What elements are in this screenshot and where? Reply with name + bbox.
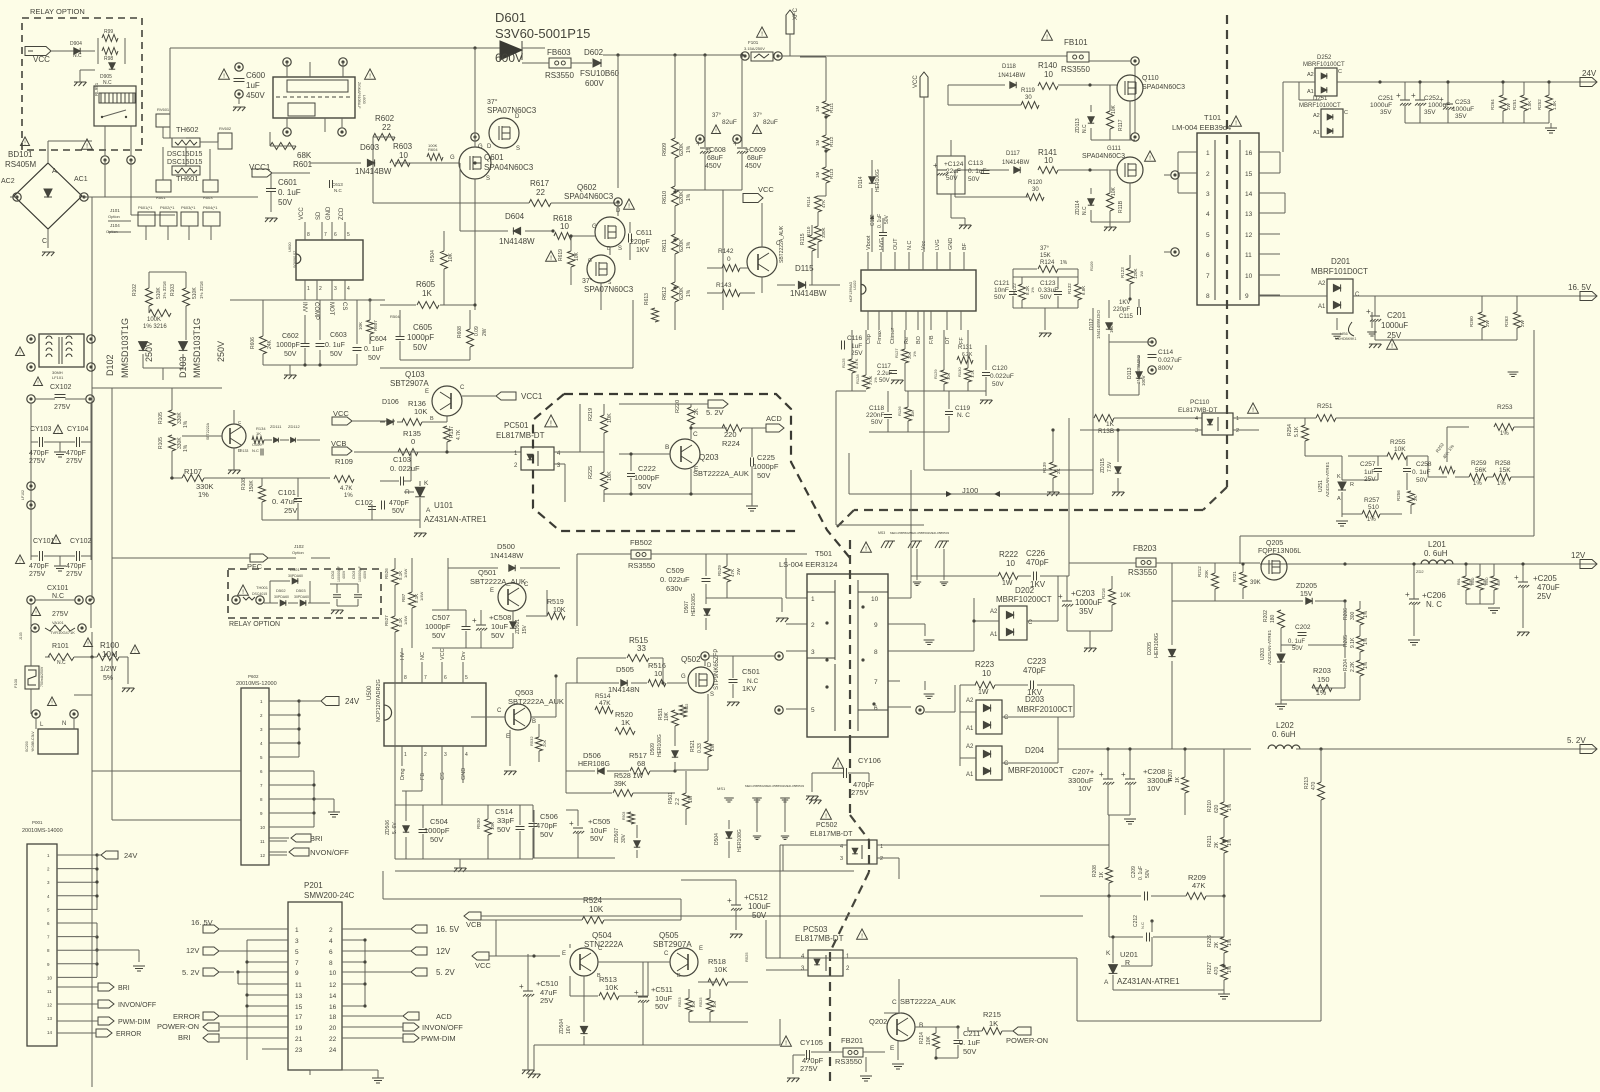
svg-text:R606: R606	[250, 337, 256, 349]
svg-text:G: G	[592, 224, 597, 230]
svg-text:C101: C101	[278, 488, 296, 497]
svg-text:POWER-ON: POWER-ON	[157, 1022, 199, 1031]
svg-text:470pF: 470pF	[536, 821, 558, 830]
svg-text:400V: 400V	[363, 570, 367, 579]
svg-text:R129: R129	[933, 369, 938, 379]
svg-text:VCB: VCB	[466, 920, 481, 929]
svg-text:GND: GND	[326, 206, 332, 220]
svg-text:R112: R112	[829, 136, 834, 147]
svg-text:6.8K: 6.8K	[1081, 286, 1086, 295]
svg-text:U203: U203	[1260, 648, 1266, 660]
svg-text:R611: R611	[662, 239, 668, 252]
svg-text:R100: R100	[100, 641, 120, 650]
svg-text:L201: L201	[1428, 540, 1446, 549]
svg-text:R102: R102	[132, 284, 138, 296]
svg-text:620K: 620K	[679, 191, 685, 204]
svg-text:R99: R99	[104, 29, 113, 35]
svg-text:100K: 100K	[428, 143, 438, 148]
svg-text:0. 6uH: 0. 6uH	[1424, 549, 1448, 558]
svg-text:50V: 50V	[879, 378, 890, 384]
svg-text:750mA/250V: 750mA/250V	[40, 666, 44, 687]
svg-text:ACD: ACD	[436, 1012, 452, 1021]
svg-text:R603: R603	[393, 142, 413, 151]
svg-text:1.2K: 1.2K	[970, 369, 975, 378]
svg-text:SBT2222A_AUK: SBT2222A_AUK	[900, 997, 956, 1006]
svg-text:2: 2	[1236, 428, 1239, 434]
svg-text:LF102: LF102	[21, 490, 25, 500]
svg-text:4: 4	[1195, 416, 1198, 422]
svg-text:6: 6	[329, 949, 333, 956]
svg-text:PWM-DIM: PWM-DIM	[118, 1019, 150, 1026]
svg-text:470pF: 470pF	[66, 563, 86, 570]
svg-text:A2: A2	[966, 698, 974, 704]
svg-text:6: 6	[1206, 252, 1210, 259]
svg-text:P001: P001	[32, 820, 43, 825]
svg-text:MS3: MS3	[878, 531, 885, 535]
svg-text:C: C	[598, 946, 603, 952]
svg-text:16V: 16V	[566, 1024, 572, 1034]
svg-text:D501: D501	[290, 567, 300, 572]
svg-text:800V: 800V	[1158, 365, 1174, 372]
svg-text:10: 10	[1006, 559, 1015, 568]
svg-text:T501: T501	[815, 549, 832, 558]
svg-text:C226: C226	[1026, 549, 1046, 558]
svg-text:D117: D117	[1006, 151, 1021, 157]
svg-text:TH001: TH001	[256, 585, 269, 590]
svg-text:3: 3	[1206, 191, 1210, 198]
svg-text:1%: 1%	[1363, 610, 1369, 618]
svg-text:C604: C604	[370, 336, 387, 343]
svg-text:2W: 2W	[1485, 319, 1490, 327]
svg-text:C113: C113	[968, 160, 983, 167]
svg-text:+: +	[569, 819, 574, 828]
svg-text:10: 10	[1044, 70, 1053, 79]
svg-text:C253: C253	[1455, 99, 1471, 106]
svg-text:1%: 1%	[686, 145, 692, 153]
svg-text:C112: C112	[870, 214, 876, 226]
svg-text:6: 6	[874, 705, 878, 712]
svg-text:C602: C602	[282, 333, 299, 340]
svg-text:1%: 1%	[1030, 287, 1035, 293]
svg-text:14: 14	[47, 1030, 53, 1035]
svg-text:35V: 35V	[1424, 109, 1436, 116]
svg-text:R103: R103	[170, 284, 176, 296]
svg-text:A: A	[1337, 496, 1341, 502]
svg-text:R254: R254	[1287, 424, 1293, 436]
svg-text:0.47K: 0.47K	[854, 358, 859, 369]
svg-text:12: 12	[329, 982, 337, 989]
svg-text:10K: 10K	[712, 1001, 717, 1008]
svg-text:RS405M: RS405M	[5, 160, 36, 169]
svg-text:RS3550: RS3550	[835, 1057, 862, 1066]
svg-text:50V: 50V	[284, 351, 297, 358]
svg-text:FF: FF	[959, 337, 965, 344]
svg-text:10: 10	[260, 825, 266, 830]
svg-text:+: +	[696, 139, 701, 148]
svg-text:VCC: VCC	[33, 55, 50, 64]
svg-text:ZD205: ZD205	[1296, 583, 1317, 590]
svg-text:C123: C123	[1040, 280, 1056, 287]
svg-text:A1: A1	[966, 726, 974, 732]
svg-text:+: +	[1439, 95, 1444, 104]
svg-text:B: B	[919, 1022, 923, 1029]
svg-text:C501: C501	[742, 667, 760, 676]
svg-text:600V: 600V	[495, 51, 523, 65]
svg-text:1N4148N: 1N4148N	[608, 685, 640, 694]
svg-text:9: 9	[874, 622, 878, 629]
svg-text:BO: BO	[916, 335, 922, 344]
svg-text:50V: 50V	[752, 911, 767, 920]
svg-text:1N414BW: 1N414BW	[998, 73, 1026, 79]
svg-text:1%: 1%	[686, 241, 692, 249]
svg-text:3: 3	[811, 649, 815, 656]
svg-text:C102: C102	[355, 498, 373, 507]
svg-text:30PDA60: 30PDA60	[288, 574, 303, 578]
svg-text:+C510: +C510	[536, 979, 558, 988]
svg-text:F101: F101	[748, 40, 759, 45]
svg-text:PC503: PC503	[803, 925, 828, 934]
svg-text:R504: R504	[430, 250, 436, 262]
svg-text:220pF: 220pF	[1113, 307, 1130, 313]
svg-text:50V: 50V	[278, 198, 293, 207]
svg-text:G: G	[450, 155, 455, 161]
svg-text:AC2: AC2	[1, 178, 15, 185]
svg-text:14: 14	[1245, 191, 1253, 198]
svg-text:47K: 47K	[821, 200, 826, 208]
svg-text:1M: 1M	[815, 171, 820, 178]
svg-text:Q505: Q505	[659, 931, 679, 940]
svg-text:C601: C601	[278, 178, 298, 187]
svg-text:30V: 30V	[621, 833, 627, 843]
svg-text:R131: R131	[958, 345, 973, 351]
svg-text:1K: 1K	[422, 289, 432, 298]
svg-text:20010MS-12000: 20010MS-12000	[236, 681, 277, 687]
svg-text:!: !	[1235, 120, 1237, 127]
svg-text:CY104: CY104	[67, 426, 89, 433]
svg-text:Q203: Q203	[699, 453, 719, 462]
svg-text:BF: BF	[962, 242, 968, 250]
svg-text:1%: 1%	[1500, 431, 1509, 437]
svg-text:275V: 275V	[800, 1064, 818, 1073]
svg-text:STP9NK65ZFP: STP9NK65ZFP	[714, 649, 720, 690]
svg-text:470uF: 470uF	[1537, 583, 1560, 592]
svg-text:100V: 100V	[1141, 375, 1146, 386]
svg-text:S3V60-5001P15: S3V60-5001P15	[495, 26, 590, 41]
svg-text:5. 2V: 5. 2V	[436, 968, 455, 977]
svg-text:10uF: 10uF	[491, 622, 509, 631]
svg-text:AZ431AN-ATRE1: AZ431AN-ATRE1	[1325, 461, 1330, 497]
svg-text:SPA07N60C3: SPA07N60C3	[487, 106, 537, 115]
svg-text:R113: R113	[829, 168, 834, 179]
svg-text:R253: R253	[1497, 404, 1513, 411]
svg-text:R259: R259	[1471, 460, 1487, 467]
svg-text:35V: 35V	[1079, 607, 1094, 616]
svg-text:19: 19	[295, 1025, 303, 1032]
svg-text:NCP1396AG: NCP1396AG	[849, 281, 853, 302]
svg-text:P601(*1: P601(*1	[138, 205, 153, 210]
svg-text:VCB: VCB	[331, 439, 346, 448]
svg-text:RV601: RV601	[157, 107, 170, 112]
svg-text:R619: R619	[558, 249, 564, 261]
svg-text:275V: 275V	[52, 611, 69, 618]
svg-text:SPA04N60C3: SPA04N60C3	[1082, 153, 1125, 160]
svg-text:D112: D112	[1089, 318, 1095, 330]
svg-text:2: 2	[319, 286, 322, 292]
svg-text:24V: 24V	[1582, 69, 1597, 78]
svg-text:R109: R109	[1089, 261, 1094, 271]
svg-text:MBRF20100CT: MBRF20100CT	[1017, 705, 1073, 714]
svg-text:B: B	[532, 719, 536, 725]
svg-text:R226: R226	[1207, 935, 1213, 947]
svg-text:CY103: CY103	[30, 426, 52, 433]
svg-text:1%: 1%	[183, 444, 189, 452]
svg-text:D603: D603	[360, 143, 380, 152]
svg-text:R612: R612	[662, 287, 668, 300]
svg-text:VCC: VCC	[440, 648, 446, 660]
svg-text:N: N	[62, 721, 66, 727]
svg-text:50V: 50V	[590, 834, 603, 843]
svg-text:1000uF: 1000uF	[1075, 598, 1102, 607]
svg-text:R202: R202	[1263, 610, 1269, 622]
svg-text:POWER-ON: POWER-ON	[1006, 1036, 1048, 1045]
svg-text:12: 12	[1245, 232, 1253, 239]
svg-text:R119: R119	[1021, 88, 1036, 94]
svg-text:C117: C117	[877, 364, 892, 370]
svg-text:24K: 24K	[267, 339, 273, 349]
svg-text:1W: 1W	[978, 689, 989, 696]
svg-text:Q502: Q502	[681, 655, 701, 664]
svg-text:!: !	[1252, 407, 1254, 414]
svg-text:!: !	[369, 73, 371, 80]
svg-text:620K: 620K	[679, 287, 685, 300]
svg-text:C225: C225	[757, 453, 775, 462]
svg-text:2: 2	[1206, 171, 1210, 178]
svg-text:R142: R142	[718, 248, 734, 255]
svg-text:A: A	[52, 168, 57, 175]
svg-text:12: 12	[260, 853, 266, 858]
svg-text:TH601: TH601	[176, 174, 199, 183]
svg-text:1N414BW: 1N414BW	[790, 289, 827, 298]
svg-text:MBRF10100CT: MBRF10100CT	[1303, 62, 1345, 68]
svg-text:R125: R125	[841, 358, 846, 368]
svg-text:RV602: RV602	[219, 126, 232, 131]
svg-text:N.C: N.C	[57, 660, 66, 666]
svg-text:10K: 10K	[607, 471, 613, 481]
svg-text:37°: 37°	[753, 113, 763, 119]
svg-text:R256: R256	[1396, 490, 1401, 501]
svg-text:1N4148W: 1N4148W	[490, 551, 524, 560]
svg-text:INV: INV	[301, 302, 307, 312]
svg-text:5: 5	[295, 949, 299, 956]
svg-text:1K: 1K	[1099, 871, 1105, 878]
svg-text:470pF: 470pF	[1026, 558, 1049, 567]
svg-text:ZD113: ZD113	[1075, 118, 1081, 133]
svg-text:SPA04N60C3: SPA04N60C3	[1142, 84, 1185, 91]
svg-text:22: 22	[382, 123, 391, 132]
svg-text:S: S	[516, 146, 520, 152]
svg-text:+: +	[1411, 91, 1416, 100]
svg-text:A2: A2	[990, 609, 998, 615]
svg-text:25V: 25V	[851, 350, 863, 357]
svg-text:D118: D118	[1002, 64, 1017, 70]
svg-text:13: 13	[1245, 211, 1253, 218]
svg-text:R215: R215	[983, 1010, 1001, 1019]
svg-text:1K: 1K	[621, 718, 630, 727]
svg-text:4.7K: 4.7K	[340, 486, 352, 492]
svg-text:SMW200-24C: SMW200-24C	[304, 891, 354, 900]
svg-text:R227: R227	[1207, 962, 1213, 974]
svg-text:D: D	[707, 663, 712, 669]
svg-text:R260: R260	[1469, 316, 1474, 327]
svg-text:C118: C118	[869, 405, 884, 412]
svg-text:FB203: FB203	[1133, 544, 1157, 553]
svg-text:R251: R251	[1512, 99, 1517, 110]
svg-text:AZ431AN-ATRE1: AZ431AN-ATRE1	[424, 515, 487, 524]
svg-text:1N4148W: 1N4148W	[499, 237, 535, 246]
svg-text:R264: R264	[1490, 99, 1495, 110]
svg-text:Vboot: Vboot	[866, 235, 872, 250]
svg-text:30: 30	[1032, 187, 1039, 193]
svg-text:1000uF: 1000uF	[1370, 102, 1392, 109]
svg-text:180: 180	[1270, 614, 1276, 623]
svg-text:2W: 2W	[482, 328, 488, 336]
svg-text:C: C	[892, 999, 897, 1006]
svg-text:MBRF101D0CT: MBRF101D0CT	[1311, 267, 1368, 276]
svg-text:1: 1	[295, 927, 299, 934]
svg-text:R128: R128	[855, 374, 860, 384]
svg-text:C257: C257	[1360, 461, 1376, 468]
svg-text:DT: DT	[945, 336, 951, 344]
svg-text:R203: R203	[1313, 666, 1331, 675]
svg-text:E: E	[506, 734, 510, 740]
svg-text:50V: 50V	[1145, 868, 1151, 878]
svg-text:+: +	[519, 982, 524, 991]
svg-text:D503: D503	[296, 588, 306, 593]
svg-text:YK08B-C3LV: YK08B-C3LV	[31, 731, 35, 752]
svg-text:E: E	[562, 951, 566, 957]
svg-text:A2: A2	[1318, 281, 1326, 287]
svg-text:D102: D102	[105, 354, 115, 376]
svg-text:0.022uF: 0.022uF	[990, 373, 1014, 380]
svg-text:MBRF20100CT: MBRF20100CT	[1008, 766, 1064, 775]
svg-text:15K: 15K	[1040, 253, 1051, 259]
svg-text:NCP1207ADR2G: NCP1207ADR2G	[376, 679, 382, 722]
svg-text:7: 7	[295, 960, 299, 967]
svg-text:40R: 40R	[1497, 579, 1501, 586]
svg-text:25V: 25V	[1537, 592, 1552, 601]
svg-text:50V: 50V	[368, 355, 381, 362]
svg-text:C: C	[776, 241, 781, 247]
svg-text:21: 21	[295, 1036, 303, 1043]
svg-text:1000pF: 1000pF	[424, 826, 450, 835]
svg-text:R137: R137	[449, 426, 455, 438]
svg-text:G111: G111	[1107, 146, 1121, 152]
svg-text:CY102: CY102	[70, 538, 92, 545]
svg-text:24: 24	[329, 1047, 337, 1054]
svg-text:0. 1uF: 0. 1uF	[877, 214, 883, 228]
svg-text:C514: C514	[495, 807, 513, 816]
svg-text:VCC: VCC	[333, 409, 349, 418]
svg-text:ERROR: ERROR	[116, 1031, 141, 1038]
svg-text:SC200: SC200	[25, 741, 29, 752]
svg-text:7: 7	[324, 232, 327, 238]
svg-text:D504: D504	[714, 833, 720, 845]
svg-text:FB101: FB101	[1064, 38, 1088, 47]
svg-text:ZCD: ZCD	[339, 207, 345, 220]
svg-text:8: 8	[307, 232, 310, 238]
svg-text:AZ431AN-ATRE1: AZ431AN-ATRE1	[1267, 629, 1272, 665]
svg-text:TVR10G471K: TVR10G471K	[50, 630, 75, 635]
svg-text:D113: D113	[1127, 367, 1133, 379]
svg-text:16. 5V: 16. 5V	[1568, 283, 1592, 292]
svg-text:600V: 600V	[585, 79, 604, 88]
svg-text:15: 15	[1245, 171, 1253, 178]
svg-text:P602(*1: P602(*1	[160, 205, 175, 210]
svg-text:C202: C202	[1295, 624, 1311, 631]
svg-text:100K: 100K	[147, 317, 161, 323]
svg-text:RBO: RBO	[1485, 577, 1489, 585]
svg-text:G: G	[588, 258, 592, 264]
svg-text:15V: 15V	[1300, 591, 1313, 598]
svg-text:C613: C613	[332, 182, 343, 187]
svg-text:VCC1: VCC1	[521, 392, 543, 401]
svg-text:LVG: LVG	[935, 239, 941, 250]
svg-text:1.5K: 1.5K	[1527, 101, 1532, 110]
svg-text:24V: 24V	[345, 697, 360, 706]
svg-text:EL817MB-DT: EL817MB-DT	[496, 431, 545, 440]
svg-text:9: 9	[1245, 293, 1249, 300]
svg-text:4: 4	[1206, 211, 1210, 218]
svg-text:+: +	[472, 616, 477, 625]
svg-text:A2: A2	[1313, 113, 1320, 119]
svg-text:ZIGKAF610BA-F: ZIGKAF610BA-F	[357, 82, 361, 108]
svg-text:MMSD103T1G: MMSD103T1G	[120, 318, 130, 378]
svg-text:FB603: FB603	[547, 48, 571, 57]
svg-text:K: K	[424, 480, 429, 487]
svg-text:17: 17	[295, 1014, 303, 1021]
svg-text:Q503: Q503	[515, 688, 533, 697]
svg-text:10: 10	[399, 151, 408, 160]
svg-text:D904: D904	[70, 41, 82, 47]
svg-text:+C203: +C203	[1071, 589, 1095, 598]
svg-text:R524: R524	[583, 896, 603, 905]
svg-text:RELAY OPTION: RELAY OPTION	[30, 7, 85, 16]
svg-text:D205: D205	[1147, 642, 1153, 655]
svg-text:0.09: 0.09	[474, 326, 480, 336]
svg-text:1%: 1%	[1367, 517, 1376, 523]
svg-text:MBRF10200CT: MBRF10200CT	[996, 595, 1052, 604]
svg-text:R251: R251	[1317, 403, 1333, 410]
svg-text:G: G	[681, 674, 686, 680]
svg-text:620: 620	[1214, 804, 1220, 813]
svg-text:R133: R133	[240, 449, 248, 453]
svg-text:U201: U201	[1120, 950, 1138, 959]
svg-text:SBT2907A: SBT2907A	[390, 379, 429, 388]
svg-text:1N414BW: 1N414BW	[1002, 160, 1030, 166]
svg-text:50V: 50V	[413, 343, 428, 352]
svg-text:1000pF: 1000pF	[634, 473, 660, 482]
svg-text:D201: D201	[1331, 257, 1351, 266]
svg-text:C258: C258	[1416, 461, 1432, 468]
svg-text:C201: C201	[1387, 311, 1407, 320]
svg-text:11K: 11K	[910, 410, 915, 417]
svg-text:P201: P201	[304, 881, 323, 890]
svg-text:HER108G: HER108G	[578, 761, 610, 768]
svg-text:R224: R224	[722, 439, 740, 448]
svg-text:R108: R108	[241, 478, 247, 490]
svg-text:BRI: BRI	[178, 1033, 191, 1042]
svg-text:HER108G: HER108G	[657, 734, 663, 757]
